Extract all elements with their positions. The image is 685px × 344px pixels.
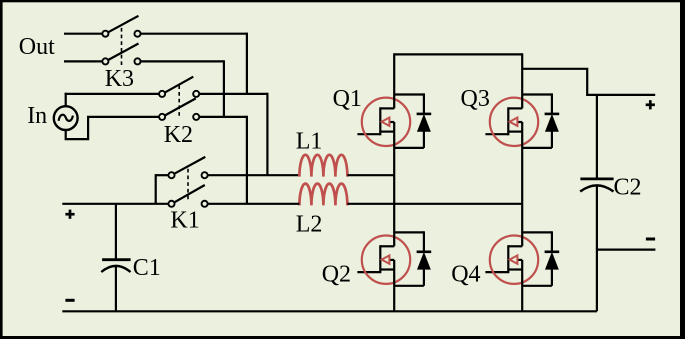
wire L1 to left bridge midpoint [347,174,394,176]
wire Out lower lead [64,60,102,62]
wire output - branch [597,249,656,251]
body diode of Q4 [522,231,559,285]
svg-text:K2: K2 [164,122,193,148]
wire bridge top rail [394,53,522,55]
svg-text:L2: L2 [296,212,323,238]
switch K3 pole B (contacts and blade) [102,44,140,65]
transistor Q1 (MOSFET in red circle) [357,98,410,146]
svg-text:Q2: Q2 [322,262,351,288]
svg-text:Q3: Q3 [461,86,490,112]
svg-text:Q4: Q4 [451,262,480,288]
wire Q3 drain riser [521,53,523,108]
wire L2 to right bridge midpoint [347,203,522,205]
inductor L1 [299,155,347,177]
wire In top lead to K2 pole A [65,93,159,107]
switch K1 pole B (contacts and blade) [168,185,207,207]
wire - bottom rail [62,310,597,312]
transistor Q3 (MOSFET in red circle) [485,98,538,146]
body diode of Q3 [522,93,559,147]
wire K1 pole A jog to + rail [156,174,169,204]
wire bridge top to output + (step) [522,69,655,95]
transistor Q4 (MOSFET in red circle) [485,236,538,284]
wire + rail (left) [62,203,168,205]
wire left bridge midpoint (Q1 source to Q2 drain) [393,122,395,246]
wire K2 pole A right to L1 net (down) [199,93,267,175]
switch K3 pole A (contacts and blade) [102,16,140,37]
wire Out upper lead [64,33,102,35]
transistor Q2 (MOSFET in red circle) [357,236,410,284]
wire K2 pole B right to L2 net (down) [199,116,247,204]
terminal - (right DC output) [646,238,655,241]
wire Q2 source to bottom rail [393,260,395,311]
inductor L2 [299,184,347,206]
switch K2 pole B (contacts and blade) [159,98,199,120]
svg-text:In: In [27,103,47,129]
terminal - (left DC input) [65,299,74,302]
svg-text:C2: C2 [614,174,642,200]
terminal + (left DC input) [65,213,74,216]
svg-text:K3: K3 [105,66,134,92]
terminal + (right DC output) [646,103,655,106]
wire Q4 source to bottom rail [521,260,523,311]
svg-text:Q1: Q1 [333,86,362,112]
body diode of Q2 [394,231,431,285]
wire In bottom lead to K2 pole B (jog) [66,117,159,139]
svg-text:K1: K1 [170,208,199,234]
switch K2 pole A (contacts and blade) [159,77,199,97]
svg-text:L1: L1 [296,129,323,155]
wire K1 pole A to L1 [208,174,300,176]
wire K3 pole B to node (right, down across K2 top wire) [141,60,224,117]
wire K3 pole A to node (right, down to K2 net) [141,33,247,94]
switch K1 gang link (dashed) [187,169,189,202]
body diode of Q1 [394,93,431,147]
svg-text:Out: Out [19,34,55,60]
svg-text:C1: C1 [133,255,161,281]
switch K3 gang link (dashed) [121,28,123,65]
switch K1 pole A (contacts and blade) [168,157,207,178]
capacitor C1 [101,204,130,311]
wire C2 top branch [596,95,598,178]
wire K1 pole B to L2 [208,203,300,205]
wire right bridge midpoint (Q3 source to Q4 drain) [521,122,523,246]
wire Q1 drain riser [393,53,395,108]
switch K2 gang link (dashed) [178,85,180,117]
capacitor C2 [580,179,613,311]
ac source In (circle with sine) [54,106,78,130]
